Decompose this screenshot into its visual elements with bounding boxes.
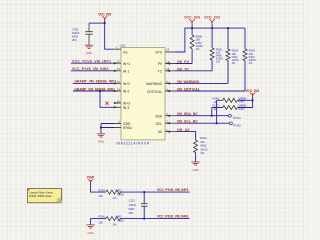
svg-text:GRAMP_VM_SENSE_INN1: GRAMP_VM_SENSE_INN1 [74, 87, 115, 91]
svg-text:GND: GND [86, 51, 92, 55]
svg-text:GND: GND [192, 168, 198, 172]
svg-text:IN+2: IN+2 [123, 82, 130, 86]
svg-text:1%: 1% [200, 151, 204, 155]
svg-text:A0: A0 [158, 130, 162, 134]
svg-text:VM_TC: VM_TC [177, 67, 190, 71]
svg-text:10k: 10k [200, 140, 205, 144]
svg-text:1%: 1% [232, 61, 236, 65]
svg-text:SDA: SDA [155, 114, 163, 118]
svg-text:R306: R306 [98, 215, 105, 219]
svg-text:PV: PV [158, 62, 163, 66]
svg-text:0402: 0402 [239, 100, 245, 104]
svg-text:VM_A0: VM_A0 [177, 128, 190, 132]
svg-text:VM_SCL_BC: VM_SCL_BC [177, 120, 199, 124]
svg-text:0402: 0402 [200, 144, 206, 148]
svg-text:1%: 1% [113, 222, 117, 226]
svg-text:25V: 25V [72, 38, 77, 42]
svg-text:100nF: 100nF [129, 203, 137, 207]
svg-text:1%: 1% [216, 60, 220, 64]
svg-text:TP141: TP141 [233, 116, 241, 120]
svg-text:R146: R146 [213, 96, 220, 100]
svg-text:0402: 0402 [116, 188, 122, 192]
svg-text:P1V8: P1V8 [87, 175, 94, 179]
svg-text:R234: R234 [200, 136, 207, 140]
svg-text:VM_CRITICAL: VM_CRITICAL [177, 88, 200, 92]
svg-text:0402: 0402 [116, 215, 122, 219]
svg-text:INA3221AIRGVR: INA3221AIRGVR [116, 142, 150, 146]
svg-text:VS: VS [123, 51, 128, 55]
svg-text:VCC_3V3: VCC_3V3 [204, 15, 220, 19]
svg-text:1%: 1% [196, 47, 200, 51]
svg-text:1%: 1% [249, 61, 253, 65]
svg-text:VCC_P1V8_VM_INN1: VCC_P1V8_VM_INN1 [72, 67, 109, 71]
svg-text:VM_WARNING: VM_WARNING [177, 80, 200, 84]
svg-text:VCC_P1V8_VM_INP1: VCC_P1V8_VM_INP1 [157, 188, 189, 192]
svg-text:C121: C121 [129, 199, 136, 203]
svg-text:1W16 2%: 1W16 2% [238, 104, 247, 108]
svg-text:R147: R147 [213, 104, 220, 108]
svg-text:0402: 0402 [129, 207, 135, 211]
svg-text:IN-2: IN-2 [123, 90, 129, 94]
svg-text:VPU: VPU [155, 51, 162, 55]
svg-text:1W16: 1W16 [117, 192, 125, 196]
svg-text:EPAD: EPAD [123, 126, 132, 130]
svg-text:0402: 0402 [72, 35, 78, 39]
svg-text:IN-3: IN-3 [123, 106, 129, 110]
svg-text:GRAMP_VM_SENSE_INP1: GRAMP_VM_SENSE_INP1 [74, 80, 116, 84]
svg-text:VCC_3V3: VCC_3V3 [184, 15, 200, 19]
svg-text:0402: 0402 [239, 107, 245, 111]
svg-text:VCC_3V3: VCC_3V3 [98, 12, 111, 16]
svg-text:1W16 2%: 1W16 2% [238, 96, 247, 100]
svg-text:VCC_P1V8_VM_INN1: VCC_P1V8_VM_INN1 [157, 215, 189, 219]
svg-text:R304: R304 [98, 188, 105, 192]
svg-text:100nF: 100nF [72, 31, 80, 35]
svg-text:VM_PV: VM_PV [177, 60, 190, 64]
svg-text:U31: U31 [120, 44, 126, 48]
svg-text:GND: GND [87, 231, 93, 235]
svg-text:25V: 25V [129, 211, 134, 215]
svg-text:VCC_P1V8_VM_INP1: VCC_P1V8_VM_INP1 [72, 60, 111, 64]
svg-text:C303: C303 [72, 28, 79, 32]
svg-text:10k: 10k [98, 194, 103, 198]
svg-text:WARNING: WARNING [146, 82, 162, 86]
svg-text:1%: 1% [113, 196, 117, 200]
svg-text:CRITICAL: CRITICAL [147, 90, 162, 94]
svg-text:1W16: 1W16 [117, 219, 125, 223]
svg-text:TP142: TP142 [233, 124, 241, 128]
svg-text:IN-1: IN-1 [123, 69, 129, 73]
svg-text:1W10: 1W10 [200, 147, 208, 151]
svg-text:VM_SDA_BC: VM_SDA_BC [177, 112, 199, 116]
svg-text:IN+1: IN+1 [123, 62, 130, 66]
svg-text:GND: GND [98, 140, 104, 144]
svg-text:TC: TC [158, 69, 163, 73]
svg-text:VCC_3V3: VCC_3V3 [246, 89, 260, 93]
svg-text:R304, R306 close: R304, R306 close [29, 194, 52, 198]
svg-text:10k: 10k [98, 220, 103, 224]
svg-text:SCL: SCL [156, 122, 163, 126]
